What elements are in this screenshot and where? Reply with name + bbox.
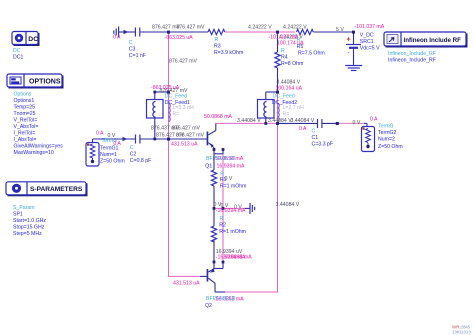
svg-text:-863.025 uA: -863.025 uA	[151, 85, 180, 91]
svg-text:50.0868 mA: 50.0868 mA	[204, 114, 233, 120]
svg-text:R=8 Ohm: R=8 Ohm	[281, 61, 303, 67]
svg-text:C: C	[130, 145, 134, 151]
svg-text:C: C	[129, 40, 133, 46]
svg-text:Tnom=25: Tnom=25	[14, 111, 36, 117]
svg-text:Step=5 MHz: Step=5 MHz	[13, 231, 42, 237]
svg-text:DC: DC	[13, 48, 21, 54]
svg-text:S_Param: S_Param	[13, 205, 35, 211]
svg-text:R: R	[281, 48, 285, 54]
svg-text:GiveAllWarnings=yes: GiveAllWarnings=yes	[14, 144, 64, 150]
svg-text:Q1: Q1	[205, 164, 212, 170]
svg-text:-50.0868 mA: -50.0868 mA	[222, 255, 252, 261]
svg-text:876.427 mV: 876.427 mV	[177, 25, 206, 31]
svg-text:-: -	[348, 51, 350, 57]
svg-text:C1: C1	[312, 135, 319, 141]
svg-text:R3: R3	[214, 44, 221, 50]
svg-text:R=: R=	[173, 112, 180, 118]
svg-text:MaxWarnings=10: MaxWarnings=10	[14, 150, 54, 156]
svg-text:I_AbsTol=: I_AbsTol=	[14, 137, 37, 143]
svg-text:Stop=15 GHz: Stop=15 GHz	[13, 225, 45, 231]
svg-text:V_RelTol=: V_RelTol=	[14, 118, 38, 124]
svg-text:R=3.9 kOhm: R=3.9 kOhm	[214, 50, 243, 56]
svg-text:-101.037 mA: -101.037 mA	[355, 24, 385, 30]
svg-text:0 A: 0 A	[370, 117, 378, 123]
svg-text:BFP540ESD: BFP540ESD	[206, 156, 236, 162]
svg-text:431.513 uA: 431.513 uA	[171, 142, 198, 148]
svg-text:Num=2: Num=2	[378, 137, 395, 143]
svg-text:R5: R5	[297, 44, 304, 50]
svg-text:TermG1: TermG1	[100, 145, 119, 151]
svg-text:3.44084 V: 3.44084 V	[291, 118, 315, 124]
svg-text:3.44084 V: 3.44084 V	[276, 202, 300, 208]
svg-text:Infineon_Include_RF: Infineon_Include_RF	[388, 51, 436, 57]
svg-text:Z=50 Ohm: Z=50 Ohm	[378, 144, 403, 150]
svg-text:R4: R4	[281, 55, 288, 61]
svg-text:TermG: TermG	[102, 138, 118, 144]
svg-text:DC: DC	[28, 36, 38, 43]
svg-text:R2: R2	[219, 223, 226, 229]
svg-text:876.427 mV: 876.427 mV	[172, 125, 201, 131]
svg-text:C: C	[312, 129, 316, 135]
svg-text:C=0.8 pF: C=0.8 pF	[130, 158, 151, 164]
svg-text:R=: R=	[283, 112, 290, 118]
svg-text:3.44084 V: 3.44084 V	[237, 118, 261, 124]
svg-text:Options: Options	[14, 92, 32, 98]
svg-text:4.24222 V: 4.24222 V	[248, 25, 272, 31]
svg-text:SP1: SP1	[13, 212, 23, 218]
svg-text:R=1 mOhm: R=1 mOhm	[220, 184, 247, 190]
svg-text:Temp=25: Temp=25	[14, 105, 36, 111]
svg-text:DC_Feed2: DC_Feed2	[272, 100, 297, 106]
svg-text:Q2: Q2	[205, 303, 212, 309]
svg-text:Num=1: Num=1	[100, 152, 117, 158]
svg-text:-16.9394 mA: -16.9394 mA	[216, 208, 246, 214]
svg-text:DC_Feed1: DC_Feed1	[165, 100, 190, 106]
svg-text:-863.025 uA: -863.025 uA	[165, 35, 194, 41]
svg-text:R: R	[220, 216, 224, 222]
svg-text:R=1 mOhm: R=1 mOhm	[219, 229, 246, 235]
svg-text:Infineon_Include_RF: Infineon_Include_RF	[388, 58, 436, 64]
svg-text:C=1 nF: C=1 nF	[129, 53, 146, 59]
svg-text:876.427 mV: 876.427 mV	[169, 58, 198, 64]
svg-text:C3: C3	[129, 46, 136, 52]
svg-text:R1: R1	[220, 177, 227, 183]
svg-text:V_AbsTol=: V_AbsTol=	[14, 124, 39, 130]
svg-text:16.9394 mA: 16.9394 mA	[217, 164, 246, 170]
svg-text:3.44084 V: 3.44084 V	[268, 118, 292, 124]
svg-text:Start=1.0 GHz: Start=1.0 GHz	[13, 218, 46, 224]
svg-text:5 V: 5 V	[336, 27, 344, 33]
svg-text:I_RelTol=: I_RelTol=	[14, 131, 36, 137]
svg-text:4.24222 V: 4.24222 V	[283, 25, 307, 31]
svg-text:BFP540ESD: BFP540ESD	[206, 296, 236, 302]
svg-text:876.427 mV: 876.427 mV	[176, 132, 205, 138]
svg-text:Infineon Include RF: Infineon Include RF	[404, 37, 462, 44]
svg-text:DC_Feed: DC_Feed	[273, 94, 295, 100]
svg-text:R=7.5 Ohm: R=7.5 Ohm	[298, 51, 325, 57]
svg-text:0 A: 0 A	[96, 131, 104, 137]
svg-text:Z=50 Ohm: Z=50 Ohm	[100, 158, 125, 164]
svg-text:R: R	[297, 38, 301, 44]
svg-text:OPTIONS: OPTIONS	[29, 79, 61, 86]
svg-text:SRC1: SRC1	[360, 39, 374, 45]
svg-text:DC_Feed: DC_Feed	[165, 94, 187, 100]
svg-text:C2: C2	[130, 152, 137, 158]
svg-text:0 A: 0 A	[299, 126, 307, 132]
svg-text:0 V: 0 V	[353, 120, 361, 126]
svg-text:Vdc=5 V: Vdc=5 V	[360, 46, 380, 52]
svg-text:V_DC: V_DC	[360, 33, 374, 39]
svg-text:C=3.3 pF: C=3.3 pF	[312, 142, 333, 148]
svg-text:TermG2: TermG2	[378, 130, 397, 136]
svg-text:3.44084 V: 3.44084 V	[277, 79, 301, 85]
svg-text:13611013: 13611013	[452, 329, 471, 334]
svg-text:+: +	[347, 37, 351, 44]
svg-text:0 A: 0 A	[113, 34, 121, 40]
svg-text:Options1: Options1	[14, 98, 35, 104]
svg-text:S-PARAMETERS: S-PARAMETERS	[30, 186, 83, 193]
svg-text:DC1: DC1	[13, 55, 23, 61]
svg-text:TermG: TermG	[378, 124, 394, 130]
svg-text:R: R	[215, 37, 219, 43]
svg-text:100.164 uA: 100.164 uA	[276, 86, 303, 92]
svg-text:431.513 uA: 431.513 uA	[173, 281, 200, 287]
